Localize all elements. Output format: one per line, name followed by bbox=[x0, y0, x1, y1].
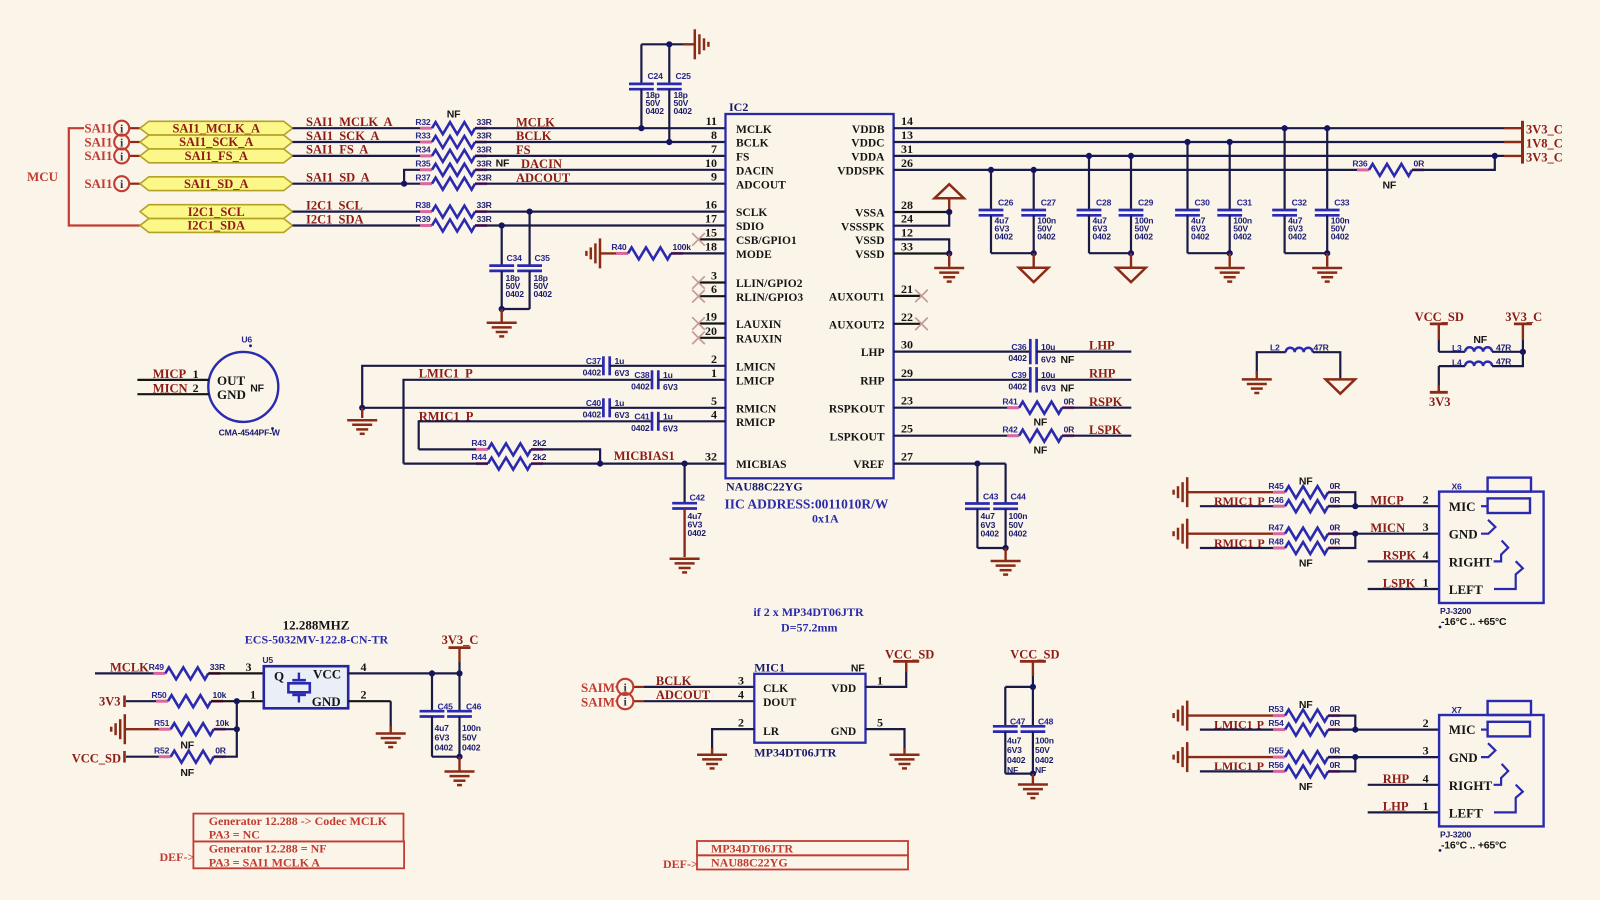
svg-text:6V3: 6V3 bbox=[615, 410, 630, 420]
IC2 left pin 15 CSB/GPIO1 bbox=[705, 225, 797, 247]
svg-text:C29: C29 bbox=[1138, 197, 1154, 207]
svg-text:1: 1 bbox=[877, 673, 883, 687]
wire R52 to rail / rail vertical bbox=[214, 701, 237, 757]
wire C47/C48 bottom rail bbox=[1005, 772, 1033, 774]
IC2 left pin 10 DACIN bbox=[705, 156, 774, 178]
svg-text:0402: 0402 bbox=[1035, 755, 1054, 765]
svg-text:LEFT: LEFT bbox=[1449, 582, 1483, 597]
wire I2C1_SCL / net label bbox=[293, 198, 433, 212]
wire C26/C27 bottom bbox=[991, 252, 1034, 254]
svg-text:NF: NF bbox=[1035, 765, 1046, 775]
svg-text:LMICP: LMICP bbox=[736, 375, 774, 387]
wire L2 left to ground bbox=[1257, 352, 1286, 375]
svg-text:4u7: 4u7 bbox=[1007, 735, 1022, 745]
resistor R54 0R bbox=[1268, 718, 1341, 735]
svg-text:MODE: MODE bbox=[736, 249, 772, 261]
wire FS to IC2 / net label FS bbox=[475, 143, 726, 157]
svg-text:X6: X6 bbox=[1452, 482, 1463, 492]
capacitor C42 4u7 bbox=[672, 464, 706, 557]
wire C39 to RHP / net label RHP bbox=[1037, 367, 1132, 381]
svg-text:6V3: 6V3 bbox=[1041, 355, 1056, 365]
resistor R49 33R bbox=[149, 662, 226, 679]
svg-text:SAI1: SAI1 bbox=[84, 176, 112, 191]
svg-text:PJ-3200: PJ-3200 bbox=[1440, 606, 1472, 616]
power port 3V3 for R50 bbox=[99, 695, 168, 709]
capacitor C44 100n bbox=[993, 464, 1027, 548]
svg-text:1: 1 bbox=[711, 366, 717, 380]
svg-text:MCLK: MCLK bbox=[110, 660, 149, 674]
svg-text:6V3: 6V3 bbox=[435, 733, 450, 743]
svg-text:R48: R48 bbox=[1268, 537, 1284, 547]
wire R40 to MODE pin bbox=[671, 252, 726, 254]
svg-text:VDDC: VDDC bbox=[851, 138, 884, 150]
resistor R46 0R bbox=[1268, 495, 1341, 512]
svg-text:0402: 0402 bbox=[981, 528, 1000, 538]
note box MP34DT06JTR bbox=[697, 841, 908, 855]
wire R41 to RSPK / net label RSPK bbox=[1062, 395, 1131, 409]
resistor R43 2k2 bbox=[471, 438, 546, 455]
svg-text:0402: 0402 bbox=[1093, 232, 1112, 242]
svg-text:BCLK: BCLK bbox=[516, 129, 552, 143]
svg-text:LR: LR bbox=[763, 726, 780, 738]
svg-text:NF: NF bbox=[1299, 699, 1313, 711]
junction SD_A branch bbox=[401, 181, 407, 187]
svg-text:NAU88C22YG: NAU88C22YG bbox=[711, 856, 788, 870]
wire C24/C25 top rail bbox=[641, 43, 683, 45]
junction R50/R51 rail bbox=[234, 698, 240, 704]
IC IC2 NAU88C22YG body bbox=[726, 100, 894, 478]
IC2 left pin 1 LMICP bbox=[711, 366, 774, 388]
svg-text:R38: R38 bbox=[415, 200, 431, 210]
svg-text:2: 2 bbox=[1423, 716, 1429, 730]
svg-text:0R: 0R bbox=[215, 745, 227, 755]
power port VCC_SD for R52 bbox=[72, 751, 171, 765]
resistor R45 0R NF bbox=[1268, 475, 1341, 498]
wire MICN to U6 pin2 bbox=[137, 381, 209, 395]
IC2 right pin 31 VDDA bbox=[851, 142, 913, 164]
power port 3V3 for L4 bbox=[1429, 366, 1451, 409]
connector X7 PJ-3200 body bbox=[1439, 705, 1544, 826]
IC2 left pin 20 RAUXIN bbox=[705, 324, 783, 346]
svg-text:2k2: 2k2 bbox=[533, 438, 547, 448]
svg-text:SAI1 SCK A: SAI1 SCK A bbox=[306, 129, 379, 143]
svg-text:NF: NF bbox=[1061, 354, 1075, 366]
wire C28/C29 bottom bbox=[1089, 252, 1131, 254]
svg-text:FS: FS bbox=[736, 152, 749, 164]
svg-text:50V: 50V bbox=[1035, 745, 1050, 755]
svg-text:RIGHT: RIGHT bbox=[1449, 554, 1493, 569]
wire L3 to junction bbox=[1492, 351, 1523, 353]
svg-text:RMICN: RMICN bbox=[736, 403, 777, 415]
connector X7 temperature range bbox=[1439, 839, 1507, 851]
svg-text:0R: 0R bbox=[1330, 537, 1342, 547]
wire VSSA pin28 bbox=[894, 211, 950, 213]
no-connect pins 3 6 left bbox=[692, 276, 725, 302]
ground VSSD bbox=[934, 254, 964, 282]
junction SDIO / C34 bbox=[499, 222, 505, 228]
svg-text:14: 14 bbox=[901, 114, 913, 128]
port SAI1 sheet-entry 3 bbox=[84, 148, 140, 163]
svg-text:3V3: 3V3 bbox=[99, 695, 121, 709]
svg-text:if 2 x MP34DT06JTR: if 2 x MP34DT06JTR bbox=[753, 605, 864, 619]
IC2 right pin 28 VSSA bbox=[855, 198, 913, 220]
svg-text:C35: C35 bbox=[535, 253, 551, 263]
svg-text:LAUXIN: LAUXIN bbox=[736, 319, 782, 331]
svg-text:MCU: MCU bbox=[27, 169, 59, 184]
wire C45/C46 bottom bbox=[432, 756, 460, 758]
svg-text:NF: NF bbox=[1299, 558, 1313, 570]
svg-text:LMICN: LMICN bbox=[736, 361, 776, 373]
ground LMICN/RMICN bbox=[347, 408, 377, 434]
ground C34/C35 bbox=[487, 309, 517, 336]
wire VSSD pin12 bbox=[894, 239, 950, 253]
svg-text:0402: 0402 bbox=[631, 423, 650, 433]
svg-text:0402: 0402 bbox=[646, 106, 665, 116]
wire SAI1_MCLK_A / net label bbox=[293, 115, 433, 129]
net port SAI1_SD_A bbox=[140, 177, 293, 191]
svg-text:I2C1 SCL: I2C1 SCL bbox=[306, 198, 363, 212]
svg-text:R49: R49 bbox=[149, 662, 165, 672]
svg-text:0402: 0402 bbox=[1009, 528, 1028, 538]
IC2 right pin 24 VSSSPK bbox=[841, 212, 913, 234]
ground C43/C44 bbox=[991, 548, 1021, 575]
svg-text:R42: R42 bbox=[1002, 424, 1018, 434]
svg-text:25: 25 bbox=[901, 422, 913, 436]
junction RMICN gnd bbox=[359, 405, 365, 411]
svg-text:0402: 0402 bbox=[506, 289, 525, 299]
wire R46 to jack pin2 / net label MICP bbox=[1328, 493, 1439, 508]
svg-text:C46: C46 bbox=[466, 702, 482, 712]
svg-text:LHP: LHP bbox=[1383, 800, 1409, 814]
svg-text:LMIC1 P: LMIC1 P bbox=[1214, 717, 1264, 731]
svg-text:SCLK: SCLK bbox=[736, 207, 767, 219]
port SAIM circle 2 bbox=[617, 693, 633, 709]
resistor R34 33R bbox=[415, 145, 492, 162]
junction C31 rail bbox=[1227, 139, 1233, 145]
wire R43 right to MICBIAS bbox=[531, 449, 600, 463]
capacitor C36 10u series bbox=[1008, 339, 1075, 366]
wire VDDB rail to 3V3_C bbox=[894, 127, 1523, 129]
resistor R50 10k bbox=[151, 690, 226, 707]
resistor R56 0R NF bbox=[1268, 760, 1341, 793]
svg-text:NF: NF bbox=[1034, 417, 1048, 429]
junction VSSA bbox=[946, 209, 952, 215]
wire C40 to IC pin5 bbox=[610, 407, 726, 409]
svg-text:VCC_SD: VCC_SD bbox=[1415, 310, 1464, 324]
svg-text:1V8_C: 1V8_C bbox=[1526, 136, 1563, 150]
ground C30/C31 bbox=[1215, 253, 1245, 281]
svg-text:0R: 0R bbox=[1064, 424, 1076, 434]
wire SAI1_SCK_A / net label bbox=[293, 129, 433, 143]
capacitor C38 1u series bbox=[631, 370, 678, 392]
svg-text:0R: 0R bbox=[1330, 760, 1342, 770]
svg-text:4: 4 bbox=[1423, 548, 1429, 562]
svg-text:PA3 = SAI1 MCLK A: PA3 = SAI1 MCLK A bbox=[209, 855, 321, 869]
IC2 left pin 5 RMICN bbox=[711, 394, 777, 416]
svg-text:NF: NF bbox=[447, 109, 461, 121]
port SAI1 sheet-entry 4 bbox=[84, 176, 140, 191]
svg-text:LMIC1 P: LMIC1 P bbox=[419, 367, 473, 381]
wire C30/C31 bottom bbox=[1188, 252, 1230, 254]
svg-text:R37: R37 bbox=[415, 172, 431, 182]
svg-text:CLK: CLK bbox=[763, 683, 788, 695]
svg-text:LEFT: LEFT bbox=[1449, 806, 1483, 821]
wire RMICP pin4 bbox=[419, 421, 652, 449]
svg-text:MICP: MICP bbox=[1370, 494, 1404, 508]
svg-text:1: 1 bbox=[1423, 799, 1429, 813]
svg-text:VDDA: VDDA bbox=[851, 152, 885, 164]
svg-text:NAU88C22YG: NAU88C22YG bbox=[726, 480, 803, 494]
wire LHP to jack pin1 bbox=[1368, 799, 1439, 814]
connector X6 part number PJ-3200 bbox=[1440, 606, 1472, 616]
IC2 left pin 11 MCLK bbox=[706, 114, 772, 136]
IC2 right pin 14 VDDB bbox=[852, 114, 913, 136]
capacitor C48 100n NF bbox=[1021, 687, 1054, 775]
wire C41 to IC pin4 bbox=[658, 420, 725, 422]
capacitor C43 4u7 bbox=[965, 464, 999, 548]
svg-text:1: 1 bbox=[193, 367, 199, 381]
port SAIM circle 1 bbox=[617, 679, 633, 695]
svg-text:33R: 33R bbox=[477, 200, 493, 210]
svg-text:5: 5 bbox=[877, 716, 883, 730]
svg-text:GND: GND bbox=[1449, 750, 1478, 765]
svg-text:VSSD: VSSD bbox=[855, 249, 884, 261]
junction MICN bbox=[1352, 531, 1358, 537]
IC2 right pin 27 VREF bbox=[853, 450, 913, 472]
resistor R55 0R bbox=[1268, 746, 1341, 763]
net label LMIC1 P / wire R56 bbox=[1200, 759, 1285, 773]
junction SCLK / C35 bbox=[527, 209, 533, 215]
svg-text:33R: 33R bbox=[210, 662, 226, 672]
wire R48 to junction bbox=[1328, 534, 1355, 548]
resistor R32 33R bbox=[415, 117, 492, 134]
wire R44 left bbox=[404, 463, 489, 465]
capacitor C33 100n bbox=[1315, 128, 1350, 253]
power port bars 3V3_C 1V8_C 3V3_C bbox=[1523, 121, 1563, 165]
svg-text:0R: 0R bbox=[1330, 718, 1342, 728]
svg-text:DACIN: DACIN bbox=[736, 165, 774, 177]
no-connect pin 15 bbox=[692, 233, 725, 246]
svg-text:3: 3 bbox=[1423, 520, 1429, 534]
junction C48 bottom bbox=[1030, 771, 1036, 777]
inductor L3 47R NF bbox=[1439, 334, 1512, 353]
ground C26/C27 bbox=[1019, 253, 1048, 282]
svg-text:30: 30 bbox=[901, 338, 913, 352]
svg-text:R55: R55 bbox=[1268, 746, 1284, 756]
svg-text:RSPK: RSPK bbox=[1089, 395, 1123, 409]
svg-text:GND: GND bbox=[831, 726, 857, 738]
svg-text:I2C1_SDA: I2C1_SDA bbox=[187, 219, 245, 233]
ground LR bbox=[697, 748, 727, 768]
resistor R44 2k2 bbox=[471, 452, 546, 469]
wire DACIN to IC2 / net label DACIN bbox=[475, 157, 726, 171]
svg-text:MIC: MIC bbox=[1449, 499, 1476, 514]
port SAIM 2 bbox=[581, 694, 644, 709]
svg-text:1: 1 bbox=[1423, 576, 1429, 590]
svg-text:FS: FS bbox=[516, 143, 531, 157]
svg-text:DEF->: DEF-> bbox=[160, 850, 195, 864]
svg-text:DACIN: DACIN bbox=[521, 157, 562, 171]
svg-text:LHP: LHP bbox=[1089, 338, 1115, 352]
ground top rail bbox=[683, 29, 708, 59]
svg-text:C37: C37 bbox=[586, 356, 602, 366]
svg-text:VCC: VCC bbox=[313, 666, 341, 681]
svg-text:0R: 0R bbox=[1330, 704, 1342, 714]
svg-text:MP34DT06JTR: MP34DT06JTR bbox=[711, 841, 793, 855]
capacitor C35 18p bbox=[517, 212, 552, 309]
resistor R40 100k bbox=[611, 242, 691, 259]
wire R36 to 3V3_C rail bbox=[1412, 156, 1495, 170]
svg-text:ADCOUT: ADCOUT bbox=[656, 688, 711, 702]
svg-text:33: 33 bbox=[901, 240, 913, 254]
junction C27 gnd bbox=[1031, 250, 1037, 256]
svg-text:R44: R44 bbox=[471, 452, 487, 462]
svg-text:6V3: 6V3 bbox=[1007, 745, 1022, 755]
svg-text:24: 24 bbox=[901, 212, 913, 226]
junction C34 gnd bbox=[499, 306, 505, 312]
svg-text:C36: C36 bbox=[1011, 342, 1027, 352]
svg-text:2: 2 bbox=[711, 352, 717, 366]
svg-text:29: 29 bbox=[901, 366, 913, 380]
junction C25 on BCLK bbox=[666, 139, 672, 145]
svg-text:MCLK: MCLK bbox=[736, 124, 772, 136]
resistor R42 0R NF bbox=[1002, 424, 1075, 456]
jack X7 sleeve rectangle top bbox=[1488, 701, 1531, 715]
svg-text:0402: 0402 bbox=[1288, 232, 1307, 242]
svg-text:MICN: MICN bbox=[153, 381, 188, 395]
svg-text:6V3: 6V3 bbox=[663, 424, 678, 434]
svg-text:C26: C26 bbox=[998, 197, 1014, 207]
svg-text:0R: 0R bbox=[1330, 481, 1342, 491]
svg-text:0402: 0402 bbox=[534, 289, 553, 299]
wire LSPKOUT pin25 bbox=[894, 435, 1020, 437]
wire ADCOUT to IC2 / net label ADCOUT bbox=[475, 171, 726, 185]
junction None bbox=[1352, 754, 1358, 760]
ground L2 left bbox=[1242, 371, 1272, 393]
junction R36 3V3_C bbox=[1492, 153, 1498, 159]
svg-text:R56: R56 bbox=[1268, 760, 1284, 770]
wire R53 to junction bbox=[1328, 716, 1355, 730]
wire R49 to U5 pin3 bbox=[208, 660, 263, 674]
svg-text:AUXOUT1: AUXOUT1 bbox=[829, 292, 885, 304]
svg-text:VSSA: VSSA bbox=[855, 208, 885, 220]
svg-text:R34: R34 bbox=[415, 145, 431, 155]
svg-text:13: 13 bbox=[901, 128, 913, 142]
capacitor C30 4u7 bbox=[1175, 142, 1210, 253]
svg-text:0402: 0402 bbox=[1037, 232, 1056, 242]
wire LMICP pin1 bbox=[404, 380, 653, 464]
capacitor C37 1u series bbox=[583, 356, 630, 378]
wire R47 to jack pin3 / net label MICN bbox=[1328, 520, 1439, 535]
resistor R47 0R bbox=[1268, 522, 1341, 539]
svg-text:28: 28 bbox=[901, 198, 913, 212]
svg-text:6V3: 6V3 bbox=[615, 368, 630, 378]
svg-text:10k: 10k bbox=[215, 718, 229, 728]
svg-text:C44: C44 bbox=[1011, 492, 1027, 502]
svg-text:2: 2 bbox=[193, 381, 199, 395]
svg-text:R33: R33 bbox=[415, 131, 431, 141]
wire VDDC rail to 1V8_C bbox=[894, 141, 1523, 143]
svg-text:X7: X7 bbox=[1452, 705, 1463, 715]
IC2 right pin 12 VSSD bbox=[855, 225, 913, 247]
IC2 left pin 2 LMICN bbox=[711, 352, 776, 374]
svg-text:3V3_C: 3V3_C bbox=[442, 633, 479, 647]
svg-text:3V3_C: 3V3_C bbox=[1526, 151, 1563, 165]
capacitor C47 4u7 NF bbox=[993, 687, 1026, 775]
svg-text:C25: C25 bbox=[676, 71, 692, 81]
svg-text:12.288MHZ: 12.288MHZ bbox=[283, 618, 350, 633]
svg-text:3V3: 3V3 bbox=[1429, 395, 1451, 409]
svg-text:MICBIAS: MICBIAS bbox=[736, 459, 786, 471]
ground X7 mic pair top bbox=[1174, 701, 1273, 731]
svg-text:LMIC1 P: LMIC1 P bbox=[1214, 759, 1264, 773]
svg-text:R51: R51 bbox=[154, 718, 170, 728]
svg-text:RHP: RHP bbox=[1383, 772, 1410, 786]
svg-text:27: 27 bbox=[901, 450, 913, 464]
capacitor C25 18p bbox=[657, 44, 692, 142]
jack X6 sleeve rectangle top bbox=[1488, 478, 1531, 492]
capacitor C29 100n bbox=[1119, 156, 1154, 253]
svg-text:GND: GND bbox=[1449, 527, 1478, 542]
connector X6 temperature range bbox=[1439, 616, 1507, 628]
svg-text:0402: 0402 bbox=[583, 409, 602, 419]
svg-text:0R: 0R bbox=[1064, 396, 1076, 406]
svg-text:SAI1_SCK_A: SAI1_SCK_A bbox=[179, 135, 253, 149]
wire C43/C44 bottom bbox=[977, 547, 1005, 549]
svg-text:C34: C34 bbox=[507, 253, 523, 263]
junction C30 rail bbox=[1184, 139, 1190, 145]
svg-text:IIC ADDRESS:0011010R/W: IIC ADDRESS:0011010R/W bbox=[725, 497, 889, 512]
svg-text:VDDSPK: VDDSPK bbox=[837, 166, 884, 178]
svg-text:0402: 0402 bbox=[674, 106, 693, 116]
svg-text:RAUXIN: RAUXIN bbox=[736, 333, 783, 345]
ground C32/C33 bbox=[1312, 253, 1342, 281]
svg-text:33R: 33R bbox=[477, 131, 493, 141]
svg-text:C31: C31 bbox=[1237, 197, 1253, 207]
svg-text:NF: NF bbox=[1383, 179, 1397, 191]
wire C32/C33 bottom bbox=[1285, 252, 1328, 254]
ground R40 bbox=[586, 238, 628, 268]
capacitor C32 4u7 bbox=[1272, 128, 1307, 253]
analog ground triangle L2 bbox=[1326, 379, 1355, 393]
svg-text:C40: C40 bbox=[586, 398, 602, 408]
svg-text:100k: 100k bbox=[673, 242, 692, 252]
wire RMICN pin5 bbox=[362, 407, 603, 409]
svg-text:ECS-5032MV-122.8-CN-TR: ECS-5032MV-122.8-CN-TR bbox=[245, 633, 389, 647]
IC2 left pin 3 LLIN/GPIO2 bbox=[711, 269, 803, 291]
ground X7 mic pair bottom bbox=[1174, 742, 1273, 772]
svg-text:R53: R53 bbox=[1268, 704, 1284, 714]
svg-text:LHP: LHP bbox=[861, 347, 885, 359]
svg-text:SDIO: SDIO bbox=[736, 221, 764, 233]
connector X7 part number PJ-3200 bbox=[1440, 829, 1472, 839]
svg-text:C27: C27 bbox=[1041, 197, 1057, 207]
wire MCLK to IC2 / net label MCLK bbox=[475, 115, 726, 129]
resistor R33 33R bbox=[415, 131, 492, 148]
resistor R51 10k NF bbox=[154, 718, 229, 752]
svg-text:NF: NF bbox=[180, 767, 194, 779]
power port VCC_SD for L3 bbox=[1415, 310, 1464, 352]
svg-text:VDDB: VDDB bbox=[852, 124, 885, 136]
microphone U6 CMA-4544PF-W bbox=[208, 335, 280, 438]
ground R51 bbox=[111, 714, 171, 744]
wire R56 to junction bbox=[1328, 757, 1355, 771]
capacitor C31 100n bbox=[1217, 142, 1252, 253]
svg-text:11: 11 bbox=[706, 114, 717, 128]
svg-text:0402: 0402 bbox=[688, 528, 707, 538]
svg-text:0R: 0R bbox=[1414, 159, 1426, 169]
svg-text:9: 9 bbox=[711, 170, 717, 184]
